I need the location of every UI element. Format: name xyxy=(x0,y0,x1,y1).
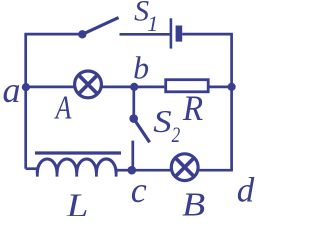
svg-text:S: S xyxy=(153,104,171,139)
resistor R body xyxy=(166,80,209,92)
wire right vertical xyxy=(230,34,233,170)
battery long plate xyxy=(170,18,173,48)
node a dot xyxy=(22,83,30,91)
wire lamp A to resistor xyxy=(102,86,165,89)
wire resistor to right xyxy=(208,86,231,89)
svg-text:L: L xyxy=(66,186,89,216)
svg-text:b: b xyxy=(133,50,149,86)
node b dot xyxy=(130,83,138,91)
svg-text:2: 2 xyxy=(172,123,181,148)
svg-text:R: R xyxy=(182,89,203,129)
node c dot xyxy=(128,166,137,175)
inductor L core bar xyxy=(35,151,121,154)
battery short thick plate xyxy=(176,26,183,42)
svg-text:d: d xyxy=(237,171,255,210)
svg-text:a: a xyxy=(3,70,21,110)
wire left vertical a-side xyxy=(24,34,27,169)
switch S1 pivot dot xyxy=(78,30,86,38)
lamp B circle xyxy=(171,154,198,181)
wire c to lamp B xyxy=(132,169,171,172)
wire lamp B to bottom-right corner xyxy=(198,169,233,172)
wire top-left to switch S1 xyxy=(24,33,82,36)
lamp B cross xyxy=(175,158,194,177)
node dot on right wire xyxy=(228,83,236,91)
wire bottom-left corner to coil xyxy=(26,167,39,170)
lamp A circle xyxy=(75,71,102,98)
svg-text:A: A xyxy=(54,88,72,126)
switch S2 pivot dot xyxy=(129,114,138,123)
switch S2 lever xyxy=(134,119,150,143)
inductor L coil arcs xyxy=(37,159,116,173)
wire S2 fixed contact down to c xyxy=(131,141,134,171)
wire coil to c xyxy=(116,169,132,172)
wire a to lamp A xyxy=(26,86,75,89)
inductor coil feet ticks xyxy=(37,171,116,177)
wire S1 fixed contact to battery xyxy=(120,33,170,36)
lamp A cross xyxy=(79,75,98,94)
wire battery to top-right corner xyxy=(182,33,233,36)
svg-text:1: 1 xyxy=(147,11,158,36)
svg-text:B: B xyxy=(182,185,205,216)
svg-text:c: c xyxy=(131,170,147,210)
switch S1 lever xyxy=(82,18,118,35)
wire b down to S2 xyxy=(132,87,135,119)
